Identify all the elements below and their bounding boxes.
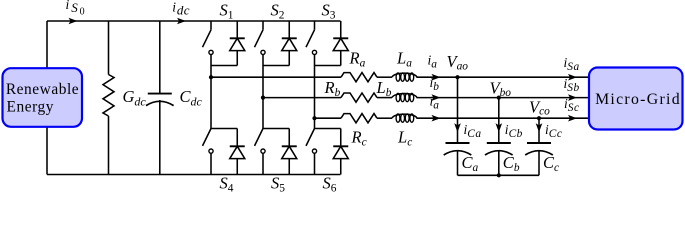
svg-text:Energy: Energy	[7, 99, 54, 116]
svg-text:Renewable: Renewable	[6, 81, 79, 98]
svg-text:Micro-Grid: Micro-Grid	[595, 91, 681, 108]
